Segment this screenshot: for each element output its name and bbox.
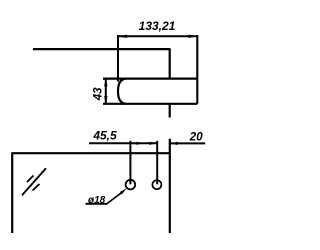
handle rounded end cap (118, 79, 126, 104)
svg-text:45,5: 45,5 (92, 128, 117, 142)
dimension text 45,5 (92, 128, 117, 142)
svg-text:20: 20 (189, 131, 203, 143)
glass symbol short slash upper (27, 176, 34, 183)
hole right ø18 (152, 180, 161, 189)
arrow bottom of dimension 43 (104, 96, 107, 104)
arrow right of dimension 133,21 (189, 35, 198, 38)
arrow left of dimension 45,5 (130, 142, 138, 145)
handle right edge with extension line (196, 35, 198, 104)
leader line of ø18 label (107, 191, 124, 203)
door edge vertical below grip (169, 104, 171, 118)
arrow top of dimension 43 (104, 79, 107, 87)
svg-text:ø18: ø18 (88, 195, 106, 206)
door edge vertical above grip (169, 48, 171, 78)
extension line right hole (156, 141, 158, 185)
arrow left of dimension 133,21 (118, 35, 127, 38)
dimension line 45,5 (89, 142, 157, 144)
hole left ø18 (126, 180, 136, 190)
glass symbol short slash lower (33, 184, 40, 191)
dimension line 43 (vertical) (105, 79, 107, 104)
handle grip top edge (103, 77, 197, 79)
glass door right edge with extension line (169, 139, 171, 233)
dimension text 133,21 (139, 19, 176, 33)
dimension text 20 (189, 131, 203, 143)
svg-text:43: 43 (93, 87, 105, 101)
svg-text:133,21: 133,21 (139, 19, 176, 33)
glass door left edge (11, 152, 13, 233)
door plane line (top view) (33, 48, 170, 50)
dimension line 133,21 (118, 35, 197, 37)
dimension text 43 (rotated) (93, 87, 105, 101)
dimension line 20 (170, 142, 205, 144)
extension line left hole (129, 141, 131, 185)
extension line left of dimension 133,21 (117, 35, 119, 82)
glass door top edge (front view) (12, 152, 170, 154)
leader arrow of ø18 label (120, 188, 127, 194)
label text ø18 (88, 195, 106, 206)
arrow right of dimension 45,5 (149, 142, 157, 145)
handle grip bottom edge (103, 103, 197, 105)
label underline ø18 (86, 203, 108, 205)
glass symbol long slash (22, 168, 46, 195)
arrow of dimension 20 (170, 142, 178, 145)
